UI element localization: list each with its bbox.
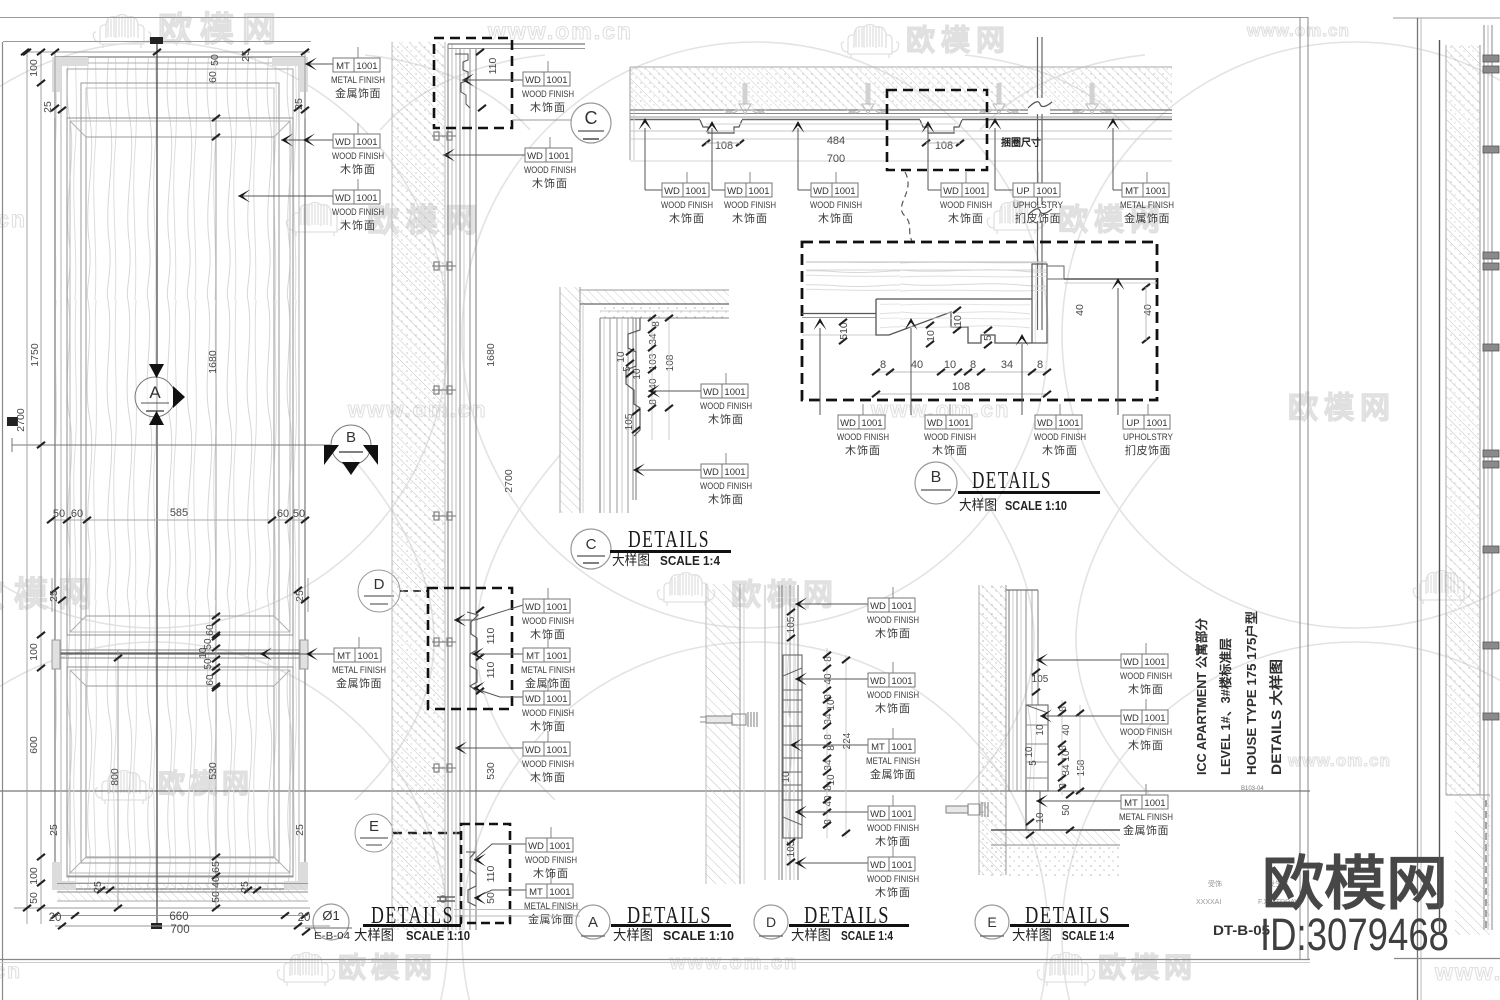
svg-text:105: 105 [1032, 674, 1049, 685]
svg-text:40: 40 [648, 378, 659, 390]
svg-text:www.om.cn: www.om.cn [1287, 751, 1391, 770]
svg-text:1680: 1680 [207, 350, 219, 374]
svg-text:40: 40 [1074, 304, 1086, 316]
svg-text:欧模网: 欧模网 [1262, 851, 1448, 917]
svg-text:105: 105 [786, 616, 797, 633]
svg-text:B: B [346, 429, 356, 446]
svg-text:SCALE 1:4: SCALE 1:4 [1062, 928, 1115, 943]
svg-text:100: 100 [28, 643, 40, 661]
svg-text:C: C [585, 108, 598, 128]
svg-text:SCALE 1:4: SCALE 1:4 [841, 928, 894, 943]
svg-text:欧模网: 欧模网 [158, 11, 284, 49]
svg-text:8: 8 [1037, 359, 1043, 371]
svg-text:585: 585 [170, 507, 188, 519]
svg-text:SCALE 1:4: SCALE 1:4 [660, 553, 721, 568]
svg-text:60: 60 [207, 71, 219, 83]
svg-text:10: 10 [952, 315, 964, 327]
svg-text:25: 25 [240, 50, 252, 62]
svg-text:530: 530 [207, 762, 219, 780]
svg-text:E: E [369, 818, 379, 835]
svg-text:捆圈尺寸: 捆圈尺寸 [1001, 136, 1041, 149]
svg-text:530: 530 [485, 762, 497, 780]
svg-text:E-B-04: E-B-04 [314, 931, 351, 942]
svg-text:50: 50 [485, 892, 497, 904]
svg-text:34: 34 [648, 333, 659, 345]
svg-text:700: 700 [170, 924, 189, 936]
svg-text:ID:3079468: ID:3079468 [1260, 909, 1449, 960]
svg-text:DETAILS: DETAILS [972, 468, 1052, 494]
svg-text:XXXXAI: XXXXAI [1196, 899, 1221, 906]
svg-text:10: 10 [616, 351, 627, 363]
svg-text:欧模网: 欧模网 [731, 579, 839, 612]
svg-text:700: 700 [827, 153, 845, 165]
svg-text:B103-04: B103-04 [1241, 786, 1264, 792]
svg-text:欧模网: 欧模网 [338, 952, 437, 983]
svg-text:34: 34 [1061, 764, 1072, 776]
svg-text:10: 10 [1035, 812, 1046, 824]
svg-text:60: 60 [205, 674, 216, 686]
svg-text:50: 50 [53, 508, 65, 520]
svg-text:108: 108 [952, 381, 970, 393]
svg-text:D: D [374, 576, 385, 593]
svg-text:SCALE 1:10: SCALE 1:10 [406, 928, 470, 943]
svg-text:100: 100 [28, 867, 40, 885]
svg-text:60: 60 [205, 624, 216, 636]
svg-text:20: 20 [298, 912, 311, 924]
svg-text:800: 800 [109, 768, 121, 786]
svg-text:10: 10 [1035, 724, 1046, 736]
svg-text:108: 108 [935, 140, 953, 152]
svg-text:50: 50 [210, 891, 222, 903]
svg-text:50: 50 [209, 54, 221, 66]
svg-text:大样图: 大样图 [612, 552, 650, 568]
svg-text:欧模网: 欧模网 [906, 24, 1011, 57]
svg-text:40: 40 [911, 359, 923, 371]
svg-text:25: 25 [293, 98, 305, 110]
svg-text:10: 10 [632, 368, 643, 380]
svg-text:Ø1: Ø1 [322, 908, 339, 923]
svg-text:50: 50 [28, 892, 40, 904]
svg-text:60: 60 [277, 508, 289, 520]
svg-text:108: 108 [665, 354, 676, 371]
svg-text:8: 8 [648, 399, 659, 405]
svg-text:www.om.cn: www.om.cn [0, 960, 22, 983]
svg-text:大样图: 大样图 [1012, 927, 1052, 943]
svg-text:DETAILS 大样图: DETAILS 大样图 [1268, 659, 1284, 775]
svg-text:10: 10 [925, 330, 937, 342]
svg-text:34: 34 [1001, 359, 1013, 371]
svg-text:660: 660 [169, 911, 188, 923]
svg-text:SCALE 1:10: SCALE 1:10 [1005, 498, 1067, 513]
svg-text:60: 60 [71, 508, 83, 520]
svg-text:1680: 1680 [485, 343, 497, 367]
svg-text:C: C [586, 536, 597, 553]
svg-text:8: 8 [880, 359, 886, 371]
svg-text:10: 10 [781, 771, 792, 783]
svg-text:www.om.cn: www.om.cn [1434, 959, 1500, 985]
svg-text:25: 25 [48, 824, 60, 836]
svg-text:224: 224 [842, 732, 853, 749]
svg-text:www.om.cn: www.om.cn [1246, 21, 1350, 40]
svg-text:50: 50 [1061, 804, 1072, 816]
svg-text:40: 40 [1142, 304, 1154, 316]
svg-text:ICC APARTMENT 公寓部分: ICC APARTMENT 公寓部分 [1194, 618, 1209, 775]
svg-text:SCALE 1:10: SCALE 1:10 [663, 928, 734, 943]
svg-text:E: E [987, 914, 996, 930]
svg-text:25: 25 [294, 824, 306, 836]
svg-text:8: 8 [651, 321, 662, 327]
svg-text:2700: 2700 [15, 408, 27, 432]
svg-text:158: 158 [1076, 759, 1087, 776]
svg-text:110: 110 [487, 57, 499, 74]
svg-text:25: 25 [42, 101, 54, 113]
svg-text:20: 20 [49, 912, 62, 924]
svg-text:10: 10 [198, 647, 209, 659]
svg-text:www.om.cn: www.om.cn [487, 18, 633, 44]
svg-text:110: 110 [485, 865, 497, 882]
svg-text:www.om.cn: www.om.cn [0, 206, 27, 232]
svg-text:LEVEL 1#、3#楼标准层: LEVEL 1#、3#楼标准层 [1218, 637, 1233, 775]
svg-text:600: 600 [28, 736, 40, 754]
svg-text:8: 8 [970, 359, 976, 371]
svg-text:25: 25 [239, 881, 251, 893]
svg-text:110: 110 [485, 661, 497, 678]
svg-text:HOUSE TYPE 175 175户型: HOUSE TYPE 175 175户型 [1244, 610, 1259, 775]
svg-text:40: 40 [1061, 724, 1072, 736]
svg-text:40: 40 [210, 876, 222, 888]
svg-text:A: A [588, 914, 598, 931]
svg-text:10: 10 [944, 359, 956, 371]
svg-text:大样图: 大样图 [959, 497, 997, 513]
svg-text:50: 50 [293, 508, 305, 520]
svg-text:10: 10 [1024, 746, 1035, 758]
svg-text:A: A [149, 383, 161, 402]
svg-text:25: 25 [92, 881, 104, 893]
svg-text:5: 5 [1028, 760, 1039, 766]
svg-text:5: 5 [982, 335, 994, 341]
svg-text:D: D [766, 914, 776, 930]
svg-text:欧模网: 欧模网 [1288, 392, 1396, 425]
svg-text:大样图: 大样图 [354, 927, 394, 943]
svg-text:大样图: 大样图 [791, 927, 831, 943]
svg-text:B: B [931, 469, 942, 486]
svg-text:欧模网: 欧模网 [1098, 952, 1197, 983]
svg-text:65: 65 [210, 861, 222, 873]
svg-text:100: 100 [28, 59, 40, 77]
svg-text:25: 25 [48, 590, 60, 602]
svg-text:受饰: 受饰 [1208, 879, 1222, 888]
svg-text:484: 484 [827, 135, 845, 147]
svg-text:105: 105 [624, 413, 635, 430]
svg-text:108: 108 [715, 140, 733, 152]
svg-text:25: 25 [294, 590, 306, 602]
svg-text:8: 8 [823, 734, 834, 740]
svg-text:110: 110 [485, 627, 497, 644]
svg-text:50: 50 [203, 658, 214, 670]
svg-text:大样图: 大样图 [613, 927, 653, 943]
svg-text:1750: 1750 [29, 343, 41, 367]
svg-text:DETAILS: DETAILS [628, 527, 710, 553]
svg-text:2700: 2700 [503, 469, 515, 493]
